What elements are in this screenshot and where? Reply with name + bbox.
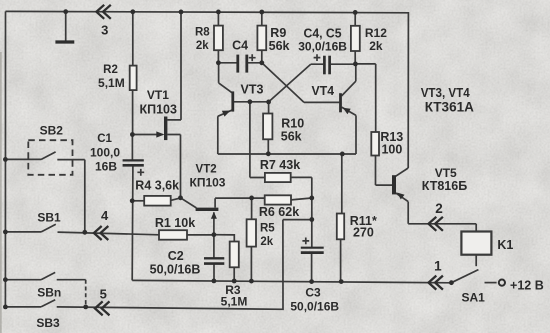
svg-text:R2: R2 — [103, 64, 118, 76]
svg-text:SB3: SB3 — [36, 316, 60, 330]
svg-text:C4: C4 — [232, 39, 248, 53]
svg-text:VT1: VT1 — [147, 88, 169, 102]
svg-text:КТ361А: КТ361А — [425, 99, 474, 114]
svg-text:SB1: SB1 — [37, 210, 61, 224]
svg-text:2: 2 — [435, 201, 443, 216]
svg-text:R10: R10 — [281, 116, 304, 130]
svg-text:VT5: VT5 — [435, 166, 457, 180]
svg-text:VT4: VT4 — [312, 84, 335, 98]
svg-text:3: 3 — [101, 22, 108, 37]
svg-text:56k: 56k — [269, 39, 290, 53]
svg-text:100: 100 — [381, 142, 402, 156]
svg-text:VT3: VT3 — [241, 82, 264, 96]
svg-text:2k: 2k — [369, 39, 383, 53]
svg-text:270: 270 — [353, 225, 374, 239]
svg-text:1: 1 — [434, 259, 442, 274]
svg-text:R9: R9 — [270, 26, 286, 40]
svg-text:R1 10k: R1 10k — [155, 216, 195, 230]
svg-text:30,0/16В: 30,0/16В — [298, 40, 347, 54]
svg-text:50,0/16В: 50,0/16В — [290, 299, 339, 313]
svg-text:2k: 2k — [260, 236, 273, 248]
svg-text:56k: 56k — [281, 129, 302, 143]
svg-text:100,0: 100,0 — [90, 145, 120, 159]
svg-text:5,1M: 5,1M — [221, 295, 248, 309]
svg-text:R4 3,6k: R4 3,6k — [135, 178, 179, 192]
svg-text:R5: R5 — [260, 223, 275, 235]
svg-text:R12: R12 — [365, 26, 387, 40]
svg-text:50,0/16В: 50,0/16В — [150, 262, 201, 276]
svg-text:K1: K1 — [497, 238, 513, 252]
svg-text:5,1M: 5,1M — [98, 76, 125, 90]
svg-text:SBn: SBn — [37, 286, 61, 300]
svg-text:16В: 16В — [95, 160, 117, 174]
svg-text:C1: C1 — [97, 133, 112, 145]
svg-text:C4, C5: C4, C5 — [304, 27, 342, 41]
svg-text:2k: 2k — [196, 40, 209, 52]
svg-text:R7 43k: R7 43k — [260, 158, 300, 172]
svg-text:C3: C3 — [305, 286, 321, 300]
svg-text:SA1: SA1 — [462, 290, 486, 304]
svg-text:C2: C2 — [168, 249, 184, 263]
svg-text:КП103: КП103 — [190, 175, 226, 189]
svg-text:SB2: SB2 — [40, 123, 64, 137]
svg-text:КП103: КП103 — [139, 102, 177, 116]
svg-text:+12 В: +12 В — [510, 279, 544, 293]
svg-text:R6 62k: R6 62k — [259, 205, 299, 219]
svg-text:VT3, VT4: VT3, VT4 — [421, 85, 471, 100]
svg-text:5: 5 — [100, 287, 107, 302]
svg-text:R8: R8 — [195, 27, 210, 39]
svg-text:КТ816Б: КТ816Б — [422, 179, 467, 193]
svg-text:4: 4 — [101, 208, 109, 223]
svg-text:VT2: VT2 — [196, 164, 217, 176]
